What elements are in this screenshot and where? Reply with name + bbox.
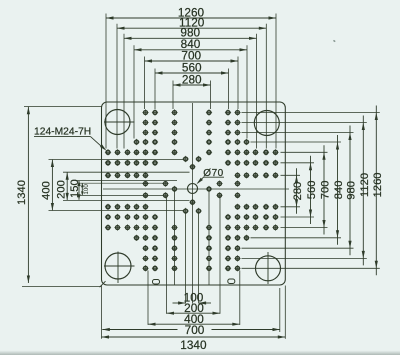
- svg-text:1120: 1120: [359, 173, 371, 197]
- svg-text:1340: 1340: [180, 338, 207, 352]
- svg-text:280: 280: [182, 72, 202, 86]
- svg-text:124-M24-7H: 124-M24-7H: [34, 127, 91, 138]
- svg-text:100: 100: [83, 184, 90, 195]
- svg-text:980: 980: [346, 181, 358, 200]
- svg-text:560: 560: [306, 181, 318, 200]
- svg-text:840: 840: [333, 181, 345, 200]
- svg-text:280: 280: [292, 182, 304, 201]
- svg-text:1260: 1260: [372, 172, 384, 197]
- svg-text:700: 700: [320, 181, 332, 200]
- svg-text:700: 700: [185, 323, 205, 337]
- svg-text:1340: 1340: [16, 180, 28, 205]
- svg-text:200: 200: [56, 180, 68, 199]
- svg-text:400: 400: [41, 181, 53, 200]
